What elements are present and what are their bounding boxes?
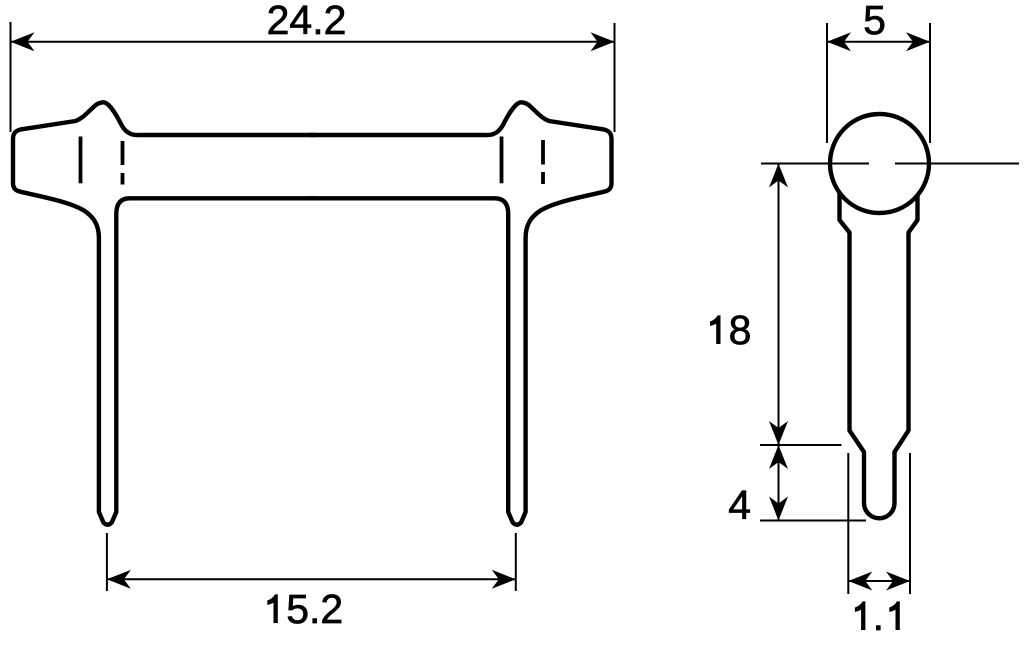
svg-text:4: 4 [728,482,751,528]
dimension 24.2 extension line left [10,22,12,132]
dimension 15.2 arrow left [107,570,131,589]
dimension 24.2 arrow left [11,32,35,51]
left ear solid mark [79,137,83,184]
svg-text:5: 5 [863,0,886,43]
dimension 1.1 extension line right [909,453,911,594]
dimension 5 arrow left [827,32,851,51]
dimension 5 extension line right [929,23,931,143]
dimension 1.1 line [848,580,910,582]
front view clip outline left half [13,102,315,524]
dimension 4 line [778,445,780,521]
dimension 15.2 label [267,594,278,623]
svg-text:.: . [873,593,884,639]
dimension 18 arrow top [769,164,788,188]
dimension 24.2 arrow right [591,32,615,51]
dimension 4 arrow bottom [769,497,788,521]
dimension 1.1 label [855,601,866,630]
centerline left segment [761,163,869,165]
dimension 18 arrow bottom [769,421,788,445]
dimension 5 arrow right [906,32,930,51]
dimension 24.2 line [11,41,615,43]
dimension 15.2 extension line left [106,533,108,591]
dimension 5 extension line left [826,23,828,143]
front view clip outline right half [310,102,612,524]
dimension 5 line [827,41,930,43]
side view pin profile [840,168,918,518]
svg-text:5.2: 5.2 [286,586,343,632]
dimension 15.2 extension line right [515,533,517,591]
svg-text:8: 8 [729,307,752,353]
dimension 1.1 extension line left [847,453,849,594]
extension line at 18/4 boundary [760,444,842,446]
dimension 1.1 arrow left [848,572,872,591]
dimension 15.2 arrow right [492,570,516,589]
dimension 15.2 line [107,578,516,580]
left ear dashed mark [121,141,125,165]
right ear dashed mark [541,140,545,165]
side view fuse circle [830,114,929,213]
extension line at 4 bottom [760,520,866,522]
dimension 4 arrow top [769,445,788,469]
right ear solid mark [500,137,504,184]
centerline right segment [895,163,1019,165]
dimension 1.1 arrow right [886,572,910,591]
dimension 18 line [778,164,780,446]
svg-text:24.2: 24.2 [267,0,347,43]
dimension 18 label [710,315,721,344]
dimension 24.2 extension line right [614,23,616,132]
